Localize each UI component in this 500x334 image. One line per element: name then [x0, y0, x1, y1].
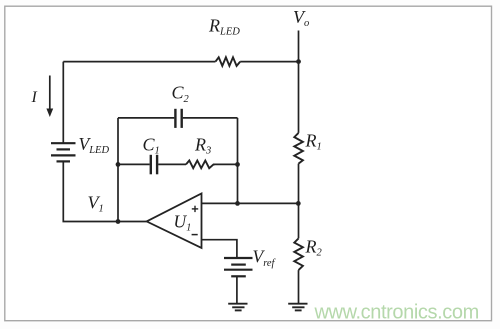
junction node at top of divider [296, 59, 301, 64]
resistor R_LED [216, 57, 241, 66]
arrowhead of current arrow [46, 109, 53, 118]
resistor R1 [294, 133, 303, 164]
wire C1 branch left [118, 163, 150, 165]
capacitor C2 [175, 109, 181, 128]
wire Vref to ground [236, 276, 238, 303]
wire top rail right segment [240, 61, 298, 63]
wire feedback left vertical [117, 118, 119, 222]
wire R3 to right vertical [214, 163, 238, 165]
junction node feedback to plus wire [235, 201, 240, 206]
junction node V1 [116, 219, 121, 224]
junction node C1 branch right [235, 162, 240, 167]
junction node C1 branch left [116, 162, 121, 167]
ground below Vref [228, 304, 247, 311]
wire C2 branch right [183, 117, 238, 119]
junction node divider mid [296, 201, 301, 206]
wire battery bottom to V1 corner [63, 161, 146, 221]
wire op-amp minus input to Vref [202, 240, 237, 258]
wire left branch vertical from corner to battery [62, 62, 64, 143]
battery V_LED [51, 143, 76, 161]
wire R1 to R2 [298, 164, 300, 239]
ground below right rail [288, 304, 307, 311]
op-amp minus sign [192, 234, 198, 236]
wire top rail left segment [63, 61, 215, 63]
resistor R2 [294, 238, 303, 270]
svg-text:www.cntronics.com: www.cntronics.com [314, 302, 479, 324]
wire right rail Vo to R1 [298, 31, 300, 133]
capacitor C1 [151, 155, 157, 175]
resistor R3 [186, 161, 215, 169]
battery V_ref [224, 258, 253, 276]
wire feedback right vertical [237, 118, 239, 203]
wire op-amp plus input to divider node [202, 202, 299, 204]
wire R2 to ground [298, 270, 300, 303]
current arrow I [49, 76, 51, 111]
op-amp U1 [147, 194, 202, 248]
wire C2 branch left [118, 117, 174, 119]
op-amp plus sign [192, 206, 198, 212]
svg-text:I: I [31, 89, 38, 106]
wire C1 to R3 [158, 163, 186, 165]
